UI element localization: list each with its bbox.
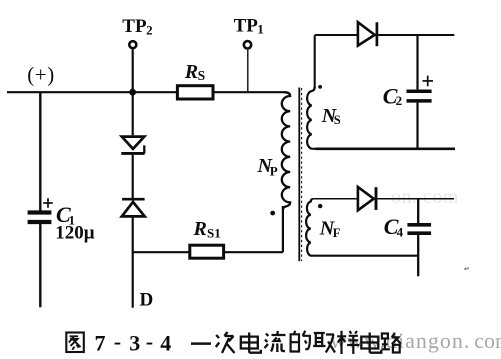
svg-text:4: 4	[160, 330, 171, 355]
svg-text:on. com: on. com	[391, 186, 459, 208]
svg-text:3: 3	[129, 330, 140, 355]
svg-text:R: R	[193, 218, 207, 240]
svg-text:S1: S1	[207, 226, 221, 241]
svg-text:4: 4	[397, 224, 404, 239]
svg-text:com: com	[474, 328, 501, 353]
svg-text:TP: TP	[122, 16, 147, 37]
svg-text:S: S	[334, 113, 341, 127]
svg-text:(+): (+)	[27, 62, 55, 86]
svg-text:TP: TP	[234, 15, 259, 36]
svg-text:2: 2	[396, 93, 403, 108]
svg-text:1: 1	[257, 22, 264, 37]
svg-text:7: 7	[95, 330, 106, 355]
svg-text:-: -	[146, 329, 153, 354]
svg-text:F: F	[333, 226, 341, 240]
svg-text:P: P	[270, 164, 278, 179]
svg-text:-: -	[114, 329, 121, 354]
svg-text:R: R	[184, 61, 198, 83]
svg-text:2: 2	[146, 22, 153, 37]
svg-text:S: S	[198, 68, 206, 83]
svg-text:D: D	[140, 289, 154, 310]
svg-text:120μ: 120μ	[55, 223, 94, 244]
